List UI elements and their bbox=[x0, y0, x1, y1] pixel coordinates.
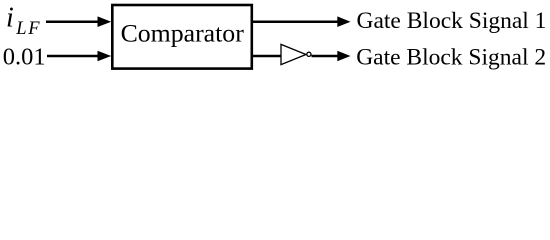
wire input 1 arrowhead bbox=[98, 16, 112, 27]
svg-text:Gate Block Signal 1: Gate Block Signal 1 bbox=[357, 8, 547, 34]
wire output 2 segment b bbox=[312, 55, 339, 58]
wire output 2 arrowhead bbox=[337, 51, 350, 62]
svg-text:LF: LF bbox=[15, 19, 41, 39]
wire input 1 bbox=[46, 20, 99, 23]
inverter U2 bbox=[281, 44, 306, 64]
inverter bubble bbox=[307, 52, 311, 56]
svg-text:i: i bbox=[6, 2, 14, 33]
wire output 2 segment a bbox=[252, 55, 282, 58]
comparator block U1 bbox=[112, 5, 252, 69]
wire output 1 bbox=[252, 20, 339, 23]
wire input 2 arrowhead bbox=[98, 51, 112, 62]
wire input 2 bbox=[47, 55, 99, 58]
wire output 1 arrowhead bbox=[337, 16, 350, 27]
svg-text:Comparator: Comparator bbox=[121, 18, 245, 47]
svg-text:0.01: 0.01 bbox=[3, 44, 46, 71]
svg-text:Gate Block Signal 2: Gate Block Signal 2 bbox=[356, 44, 546, 70]
